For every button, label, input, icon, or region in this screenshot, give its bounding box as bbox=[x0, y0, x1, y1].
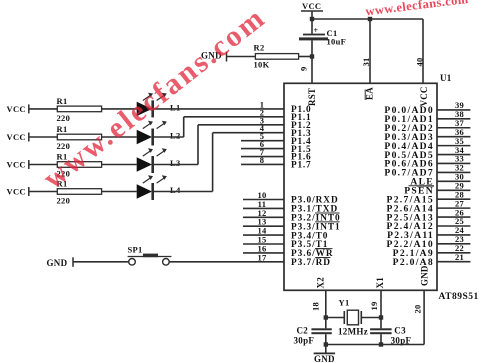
svg-text:17: 17 bbox=[257, 252, 267, 262]
svg-text:C2: C2 bbox=[297, 326, 309, 336]
svg-text:GND: GND bbox=[420, 265, 430, 286]
svg-text:X2: X2 bbox=[316, 277, 326, 289]
svg-text:EA: EA bbox=[365, 87, 375, 100]
svg-text:L3: L3 bbox=[170, 158, 181, 168]
svg-text:VCC: VCC bbox=[302, 1, 321, 11]
svg-text:AT89S51: AT89S51 bbox=[439, 292, 479, 302]
svg-text:C3: C3 bbox=[394, 326, 406, 336]
svg-text:R2: R2 bbox=[254, 43, 265, 53]
svg-text:10K: 10K bbox=[254, 60, 270, 70]
svg-text:X1: X1 bbox=[375, 277, 385, 289]
svg-text:20: 20 bbox=[413, 305, 423, 314]
svg-text:U1: U1 bbox=[440, 73, 452, 83]
svg-text:RST: RST bbox=[307, 88, 317, 106]
svg-text:SP1: SP1 bbox=[128, 244, 143, 254]
svg-text:P1.7: P1.7 bbox=[291, 161, 312, 171]
svg-text:VCC: VCC bbox=[7, 160, 26, 170]
svg-text:19: 19 bbox=[369, 302, 379, 311]
svg-text:31: 31 bbox=[361, 58, 371, 67]
svg-text:R1: R1 bbox=[57, 124, 68, 134]
svg-text:21: 21 bbox=[455, 252, 464, 262]
svg-text:GND: GND bbox=[314, 354, 335, 363]
svg-text:40: 40 bbox=[415, 58, 425, 67]
svg-text:18: 18 bbox=[311, 302, 321, 311]
svg-text:9: 9 bbox=[299, 67, 309, 71]
svg-text:+: + bbox=[314, 26, 319, 35]
svg-text:30pF: 30pF bbox=[294, 336, 315, 346]
svg-text:220: 220 bbox=[57, 113, 71, 123]
svg-text:L4: L4 bbox=[170, 185, 181, 195]
svg-text:VCC: VCC bbox=[7, 104, 26, 114]
svg-text:L2: L2 bbox=[170, 131, 181, 141]
svg-text:VCC: VCC bbox=[7, 132, 26, 142]
svg-text:220: 220 bbox=[57, 196, 71, 206]
svg-text:Y1: Y1 bbox=[339, 298, 350, 308]
svg-text:12MHz: 12MHz bbox=[338, 327, 368, 337]
svg-text:10uF: 10uF bbox=[327, 37, 347, 47]
svg-text:GND: GND bbox=[47, 258, 68, 268]
svg-text:8: 8 bbox=[260, 155, 265, 165]
svg-text:P3.7/RD: P3.7/RD bbox=[291, 258, 331, 268]
svg-text:R1: R1 bbox=[57, 96, 68, 106]
svg-text:VCC: VCC bbox=[419, 86, 429, 106]
svg-text:VCC: VCC bbox=[7, 187, 26, 197]
